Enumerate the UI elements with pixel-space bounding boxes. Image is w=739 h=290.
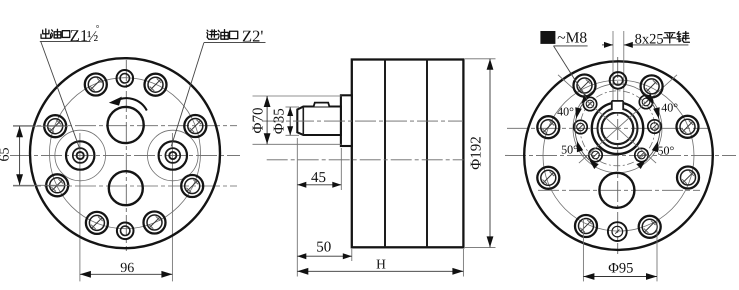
svg-text:96: 96 (120, 261, 134, 276)
svg-text:40°: 40° (557, 105, 574, 119)
svg-text:H: H (376, 257, 386, 272)
svg-text:Z1: Z1 (70, 26, 88, 45)
svg-text:50°: 50° (657, 144, 674, 158)
svg-text:50°: 50° (561, 143, 578, 157)
svg-text:8x25: 8x25 (635, 32, 664, 48)
svg-text:°: ° (96, 23, 100, 33)
svg-text:65: 65 (0, 148, 13, 162)
svg-text:Φ192: Φ192 (469, 136, 485, 169)
svg-text:Z2': Z2' (242, 26, 263, 45)
svg-text:45: 45 (311, 170, 326, 186)
svg-text:40°: 40° (661, 101, 678, 115)
svg-text:Φ35: Φ35 (272, 108, 288, 134)
svg-text:Φ70: Φ70 (251, 108, 267, 134)
svg-text:Φ95: Φ95 (608, 261, 633, 277)
svg-text:~M8: ~M8 (557, 30, 587, 47)
svg-text:50: 50 (316, 240, 331, 256)
